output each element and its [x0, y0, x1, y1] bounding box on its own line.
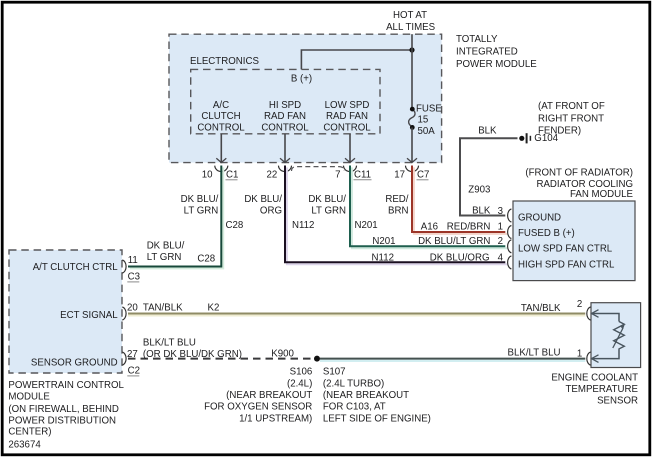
svg-text:11: 11: [128, 255, 138, 266]
svg-text:CLUTCH: CLUTCH: [201, 111, 240, 122]
svg-text:1: 1: [498, 222, 503, 233]
svg-text:HIGH SPD FAN CTRL: HIGH SPD FAN CTRL: [518, 259, 615, 270]
svg-text:ENGINE COOLANT: ENGINE COOLANT: [551, 373, 638, 384]
svg-text:1/1 UPSTREAM): 1/1 UPSTREAM): [239, 413, 312, 424]
svg-text:4: 4: [498, 252, 504, 263]
svg-text:BLK/LT BLU: BLK/LT BLU: [143, 338, 196, 349]
svg-text:RED/BRN: RED/BRN: [447, 222, 491, 233]
svg-text:DK BLU/: DK BLU/: [181, 194, 219, 205]
svg-text:(OR DK BLU/DK GRN): (OR DK BLU/DK GRN): [143, 349, 242, 360]
svg-text:BLK: BLK: [472, 206, 491, 217]
svg-text:DK BLU/LT GRN: DK BLU/LT GRN: [418, 236, 490, 247]
svg-text:C7: C7: [417, 170, 429, 181]
svg-text:ELECTRONICS: ELECTRONICS: [190, 56, 259, 67]
svg-text:S106: S106: [290, 367, 313, 378]
svg-text:C28: C28: [197, 254, 215, 265]
svg-text:MODULE: MODULE: [8, 392, 50, 403]
svg-text:TAN/BLK: TAN/BLK: [143, 303, 183, 314]
svg-text:FOR C103, AT: FOR C103, AT: [323, 402, 386, 413]
svg-text:(2.4L TURBO): (2.4L TURBO): [323, 378, 384, 389]
svg-text:3: 3: [498, 206, 503, 217]
svg-text:POWERTRAIN CONTROL: POWERTRAIN CONTROL: [8, 380, 124, 391]
svg-text:INTEGRATED: INTEGRATED: [456, 47, 518, 58]
svg-text:N112: N112: [372, 252, 394, 263]
svg-text:LT GRN: LT GRN: [147, 252, 182, 263]
svg-text:POWER MODULE: POWER MODULE: [456, 59, 537, 70]
svg-text:TOTALLY: TOTALLY: [456, 34, 498, 45]
svg-text:FAN MODULE: FAN MODULE: [570, 189, 634, 200]
svg-text:(2.4L): (2.4L): [287, 378, 312, 389]
svg-text:RAD FAN: RAD FAN: [326, 111, 368, 122]
svg-text:CONTROL: CONTROL: [197, 122, 245, 133]
svg-text:SENSOR: SENSOR: [597, 396, 638, 407]
svg-text:CENTER): CENTER): [8, 427, 51, 438]
svg-text:TEMPERATURE: TEMPERATURE: [566, 384, 639, 395]
svg-text:(AT FRONT OF: (AT FRONT OF: [538, 101, 605, 112]
svg-text:DK BLU/: DK BLU/: [147, 241, 185, 252]
svg-text:BLK: BLK: [478, 125, 497, 136]
svg-text:(FRONT OF RADIATOR): (FRONT OF RADIATOR): [525, 167, 633, 178]
svg-text:15: 15: [418, 115, 429, 126]
svg-text:N201: N201: [372, 236, 395, 247]
svg-text:BRN: BRN: [388, 205, 408, 216]
svg-text:ALL TIMES: ALL TIMES: [386, 22, 436, 33]
svg-text:BLK/LT BLU: BLK/LT BLU: [508, 348, 561, 359]
svg-text:DK BLU/: DK BLU/: [308, 194, 346, 205]
svg-text:RED/: RED/: [385, 194, 408, 205]
svg-text:A/C: A/C: [213, 100, 229, 111]
svg-text:GROUND: GROUND: [518, 213, 561, 224]
svg-text:27: 27: [127, 349, 138, 360]
svg-text:K2: K2: [208, 303, 220, 314]
svg-text:2: 2: [498, 236, 503, 247]
svg-text:1: 1: [577, 349, 582, 360]
svg-text:HI SPD: HI SPD: [269, 100, 301, 111]
svg-text:RAD FAN: RAD FAN: [264, 111, 306, 122]
svg-text:(NEAR BREAKOUT: (NEAR BREAKOUT: [323, 390, 409, 401]
svg-text:FUSE: FUSE: [416, 103, 442, 114]
svg-text:(NEAR BREAKOUT: (NEAR BREAKOUT: [226, 390, 312, 401]
svg-text:DK BLU/: DK BLU/: [244, 194, 282, 205]
svg-text:POWER DISTRIBUTION: POWER DISTRIBUTION: [8, 415, 116, 426]
svg-text:LOW SPD: LOW SPD: [325, 100, 370, 111]
svg-text:22: 22: [267, 169, 278, 180]
svg-text:LEFT SIDE OF ENGINE): LEFT SIDE OF ENGINE): [323, 413, 431, 424]
svg-text:LOW SPD FAN CTRL: LOW SPD FAN CTRL: [518, 244, 613, 255]
svg-text:N201: N201: [355, 220, 378, 231]
svg-text:S107: S107: [323, 367, 346, 378]
svg-text:17: 17: [394, 169, 405, 180]
svg-text:A16: A16: [421, 222, 438, 233]
svg-text:C28: C28: [226, 220, 244, 231]
svg-text:(ON FIREWALL, BEHIND: (ON FIREWALL, BEHIND: [8, 404, 119, 415]
svg-text:RIGHT FRONT: RIGHT FRONT: [538, 113, 604, 124]
svg-text:C11: C11: [354, 170, 371, 181]
svg-text:CONTROL: CONTROL: [323, 122, 371, 133]
svg-text:LT GRN: LT GRN: [311, 205, 346, 216]
svg-text:G104: G104: [534, 133, 558, 144]
svg-text:7: 7: [335, 169, 340, 180]
svg-text:N112: N112: [292, 220, 314, 231]
svg-text:DK BLU/ORG: DK BLU/ORG: [430, 252, 490, 263]
svg-text:TAN/BLK: TAN/BLK: [521, 303, 561, 314]
svg-text:2: 2: [577, 299, 582, 310]
svg-text:CONTROL: CONTROL: [261, 122, 309, 133]
svg-text:263674: 263674: [8, 440, 41, 451]
svg-text:C1: C1: [226, 170, 238, 181]
svg-text:FUSED B (+): FUSED B (+): [518, 228, 575, 239]
svg-text:50A: 50A: [418, 126, 436, 137]
svg-text:C2: C2: [128, 366, 140, 377]
svg-text:FOR OXYGEN SENSOR: FOR OXYGEN SENSOR: [204, 402, 312, 413]
svg-text:20: 20: [127, 303, 138, 314]
svg-text:HOT AT: HOT AT: [393, 10, 427, 21]
svg-text:ECT SIGNAL: ECT SIGNAL: [60, 310, 118, 321]
svg-text:K900: K900: [271, 348, 294, 359]
svg-text:SENSOR GROUND: SENSOR GROUND: [31, 358, 118, 369]
svg-text:B (+): B (+): [291, 74, 312, 85]
svg-text:Z903: Z903: [468, 184, 490, 195]
svg-text:LT GRN: LT GRN: [184, 205, 219, 216]
svg-text:10: 10: [202, 169, 213, 180]
svg-text:C3: C3: [128, 272, 140, 283]
svg-text:A/T CLUTCH CTRL: A/T CLUTCH CTRL: [33, 262, 118, 273]
svg-text:ORG: ORG: [260, 205, 282, 216]
